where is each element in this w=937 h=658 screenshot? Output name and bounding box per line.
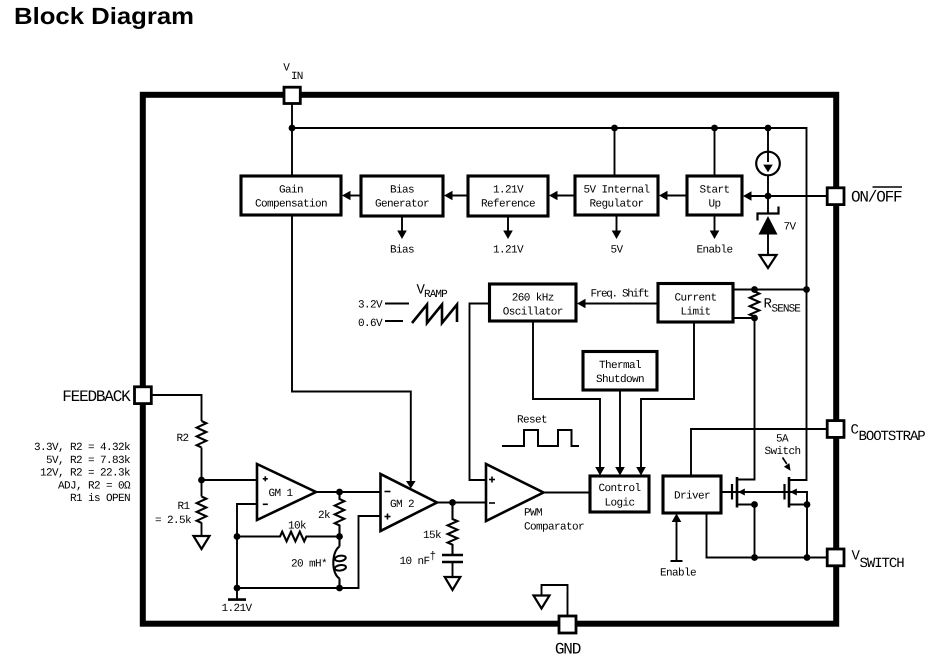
wire GM 2 output to PWM comparator - input bbox=[437, 502, 486, 504]
node junction feedback divider bbox=[198, 477, 205, 484]
block Bias Generator bbox=[361, 176, 443, 216]
node junction Q2/VSWITCH bbox=[804, 554, 811, 561]
node junction bus/current source bbox=[765, 125, 772, 132]
wire Current Limit bottom to Control Logic bbox=[636, 322, 694, 476]
resistor R1 bbox=[155, 497, 206, 528]
transistor Q2 source lead bbox=[789, 504, 807, 506]
svg-text:C: C bbox=[851, 423, 859, 439]
svg-text:SWITCH: SWITCH bbox=[860, 556, 905, 572]
svg-text:1.21V: 1.21V bbox=[221, 603, 252, 615]
wire VIN stub down to Gain Compensation bbox=[291, 103, 293, 176]
svg-text:R1: R1 bbox=[178, 501, 191, 513]
wire Current Limit to Oscillator (freq shift) bbox=[577, 299, 658, 309]
wire 1.21V Reference to Bias Generator bbox=[444, 191, 468, 201]
wire Q2 source down to VSWITCH rail bbox=[806, 505, 808, 558]
svg-text:Logic: Logic bbox=[604, 498, 634, 510]
resistor 2k bbox=[318, 492, 344, 536]
comparator PWM bbox=[486, 464, 584, 534]
pin VIN bbox=[283, 63, 302, 104]
node junction inductor / rail bbox=[336, 585, 343, 592]
ramp voltage labels 3.2V / 0.6V bbox=[358, 300, 409, 331]
block Control Logic bbox=[590, 476, 649, 512]
svg-text:5V Internal: 5V Internal bbox=[583, 185, 649, 197]
note feedback resistor values bbox=[34, 442, 131, 505]
svg-text:Generator: Generator bbox=[375, 199, 429, 211]
block 260 kHz Oscillator bbox=[490, 284, 577, 321]
block Thermal Shutdown bbox=[583, 352, 657, 391]
wire Bias Generator to Gain Compensation bbox=[342, 191, 361, 201]
wire Bias output arrow bbox=[390, 216, 414, 257]
svg-text:ON/OFF: ON/OFF bbox=[851, 189, 902, 207]
svg-text:= 2.5k: = 2.5k bbox=[155, 515, 192, 527]
block 1.21V Reference bbox=[468, 176, 548, 216]
transistor Q1 gate bar bbox=[731, 484, 733, 500]
wire Driver output to FET gates bbox=[721, 492, 807, 505]
svg-text:7V: 7V bbox=[784, 222, 797, 234]
svg-text:Oscillator: Oscillator bbox=[503, 307, 563, 319]
svg-text:GND: GND bbox=[555, 641, 581, 658]
resistor R2 bbox=[177, 421, 207, 447]
wire bus drop to current source bbox=[767, 128, 769, 152]
node junction RSENSE bottom bbox=[751, 315, 758, 322]
svg-text:FEEDBACK: FEEDBACK bbox=[62, 388, 131, 406]
node junction Q2 source bbox=[804, 501, 811, 508]
transistor Q2 drain lead bbox=[789, 479, 807, 481]
svg-text:Comparator: Comparator bbox=[524, 522, 584, 534]
wire FEEDBACK to R2 bbox=[152, 395, 202, 421]
wire Current Limit to RSENSE bottom bbox=[733, 317, 755, 319]
node junction bus/start up bbox=[711, 125, 718, 132]
wire R2 to R1 node bbox=[201, 448, 203, 497]
svg-text:Freq. Shift: Freq. Shift bbox=[591, 289, 650, 301]
op-amp GM 2 bbox=[381, 474, 438, 531]
svg-text:Gain: Gain bbox=[279, 185, 303, 197]
svg-text:Shutdown: Shutdown bbox=[596, 374, 644, 386]
resistor 10k bbox=[237, 521, 340, 542]
wire bus drop to 5V Internal Regulator bbox=[614, 128, 616, 176]
svg-text:BOOTSTRAP: BOOTSTRAP bbox=[859, 429, 926, 445]
svg-text:Control: Control bbox=[598, 483, 640, 495]
svg-text:2k: 2k bbox=[318, 510, 331, 522]
title Block Diagram bbox=[14, 3, 194, 29]
node junction bus corner / RSENSE bbox=[803, 286, 810, 293]
svg-text:Enable: Enable bbox=[660, 568, 696, 580]
svg-text:Start: Start bbox=[699, 185, 729, 197]
wire Enable input to Driver bbox=[660, 514, 696, 580]
sawtooth ramp waveform bbox=[412, 305, 457, 324]
wire 1.21V output arrow bbox=[493, 216, 524, 257]
wire R1 to ground bbox=[201, 523, 203, 536]
transistor Q1 source lead bbox=[737, 504, 755, 506]
resistor RSENSE bbox=[750, 290, 802, 319]
svg-text:Bias: Bias bbox=[390, 185, 414, 197]
transistor Q2 gate bar bbox=[783, 484, 785, 500]
IC boundary box bbox=[143, 95, 836, 624]
resistor 15k bbox=[423, 503, 457, 556]
op-amp GM 1 bbox=[257, 464, 316, 520]
svg-text:SENSE: SENSE bbox=[772, 304, 802, 316]
svg-text:ADJ, R2 = 0Ω: ADJ, R2 = 0Ω bbox=[58, 481, 131, 493]
svg-text:Reference: Reference bbox=[481, 199, 535, 211]
svg-text:1.21V: 1.21V bbox=[493, 245, 524, 257]
transistor Q1 channel bar bbox=[736, 477, 739, 508]
svg-text:10 nF: 10 nF bbox=[399, 556, 429, 568]
svg-text:RAMP: RAMP bbox=[424, 289, 448, 301]
svg-text:Driver: Driver bbox=[674, 491, 710, 503]
svg-text:10k: 10k bbox=[288, 521, 307, 533]
wire Thermal Shutdown to Control Logic bbox=[615, 390, 625, 476]
block Gain Compensation bbox=[241, 176, 341, 215]
node junction GM2 output / 15k bbox=[449, 499, 456, 506]
wire GM 1 - input to 1.21V rail bbox=[237, 504, 257, 588]
pin VSWITCH bbox=[827, 549, 904, 573]
wire 5V Regulator to 1.21V Reference bbox=[549, 191, 575, 201]
node junction VIN bus bbox=[289, 125, 296, 132]
svg-text:R2: R2 bbox=[177, 433, 189, 445]
node junction GM2 out / PWM minus bbox=[452, 502, 454, 504]
svg-text:Reset: Reset bbox=[517, 415, 547, 427]
node junction bus/5V regulator bbox=[611, 125, 618, 132]
svg-text:20 mH*: 20 mH* bbox=[291, 559, 327, 571]
block 5V Internal Regulator bbox=[575, 176, 658, 215]
svg-text:12V, R2 = 22.3k: 12V, R2 = 22.3k bbox=[40, 468, 131, 480]
wire CBOOTSTRAP to Driver top bbox=[691, 429, 827, 476]
svg-text:Bias: Bias bbox=[390, 245, 414, 257]
svg-text:Limit: Limit bbox=[680, 307, 710, 319]
wire Oscillator bottom to Control Logic bbox=[533, 321, 605, 476]
svg-text:0.6V: 0.6V bbox=[358, 318, 383, 330]
svg-text:Enable: Enable bbox=[696, 245, 732, 257]
block Start Up bbox=[687, 176, 742, 215]
svg-text:Thermal: Thermal bbox=[599, 360, 641, 372]
current source I1 bbox=[756, 152, 780, 176]
wire 1.21V rail to GM 2 + input bbox=[237, 516, 381, 588]
svg-text:GM 2: GM 2 bbox=[390, 499, 414, 511]
ground symbol below R1 bbox=[194, 536, 210, 549]
svg-text:Regulator: Regulator bbox=[589, 199, 643, 211]
svg-text:Block Diagram: Block Diagram bbox=[14, 3, 194, 29]
svg-text:3.3V, R2 = 4.32k: 3.3V, R2 = 4.32k bbox=[34, 442, 131, 454]
block Driver bbox=[663, 476, 721, 513]
label Reset bbox=[517, 415, 547, 427]
svg-text:3.2V: 3.2V bbox=[358, 300, 383, 312]
transistor Q1 drain lead bbox=[737, 479, 755, 481]
wire PWM output to Control Logic bbox=[544, 492, 591, 494]
node junction RSENSE top bbox=[751, 286, 758, 293]
node junction 10k/2k/inductor bbox=[336, 533, 343, 540]
wire Start Up to 5V Regulator bbox=[659, 191, 687, 201]
capacitor 10 nF bbox=[399, 551, 463, 576]
wire bus corner down to switch FET Q2 drain bbox=[789, 290, 807, 481]
svg-text:1.21V: 1.21V bbox=[493, 185, 524, 197]
svg-text:5V: 5V bbox=[610, 245, 623, 257]
svg-text:GM 1: GM 1 bbox=[269, 488, 294, 500]
wire RSENSE bottom down to switch FET Q1 drain bbox=[737, 318, 755, 480]
svg-text:Switch: Switch bbox=[764, 446, 800, 458]
svg-text:†: † bbox=[430, 551, 436, 563]
ground symbol internal bbox=[534, 596, 550, 609]
transistor Q1 body arrow bbox=[738, 489, 745, 496]
node VRAMP label bbox=[417, 283, 449, 302]
wire Enable output arrow bbox=[696, 215, 732, 257]
svg-text:15k: 15k bbox=[423, 530, 442, 542]
transistor Q2 channel bar bbox=[788, 477, 791, 508]
net label 1.21V bbox=[221, 588, 252, 615]
wire Oscillator left output down to PWM comparator bbox=[470, 304, 490, 481]
wire ON/OFF pin to Start Up bbox=[743, 191, 827, 201]
node junction Q1 source bbox=[751, 501, 758, 508]
wire 5V output arrow bbox=[610, 215, 623, 257]
ground symbol below zener bbox=[760, 255, 777, 268]
svg-text:260 kHz: 260 kHz bbox=[512, 293, 554, 305]
node junction GM1 minus wire / 10k bbox=[234, 533, 241, 540]
wire Current Limit to RSENSE top bbox=[733, 289, 807, 291]
wire Q1 source down to VSWITCH rail bbox=[754, 505, 756, 558]
block Current Limit bbox=[658, 284, 733, 323]
zener diode 7V bbox=[758, 207, 797, 255]
wire top supply bus bbox=[292, 128, 807, 290]
pin FEEDBACK bbox=[62, 387, 151, 406]
pin GND bbox=[555, 616, 581, 658]
node junction GM1 minus rail bbox=[234, 585, 241, 592]
svg-text:5V, R2 = 7.83k: 5V, R2 = 7.83k bbox=[46, 455, 131, 467]
wire GM 1 output to GM 2 - input bbox=[316, 491, 381, 493]
wire current source to ON/OFF node bbox=[767, 175, 769, 213]
node junction Q1/VSWITCH bbox=[751, 554, 758, 561]
reset pulse waveform bbox=[502, 430, 579, 446]
wire GND pin to internal ground bbox=[542, 585, 568, 616]
ground symbol below 10 nF bbox=[445, 577, 461, 590]
node junction ON/OFF wire and zener branch bbox=[765, 193, 772, 200]
svg-text:IN: IN bbox=[291, 71, 303, 83]
pin CBOOTSTRAP bbox=[827, 421, 925, 445]
wire divider node to GM 1 + input bbox=[202, 479, 258, 481]
svg-text:PWM: PWM bbox=[524, 508, 542, 520]
wire Gain Compensation to GM 2 input arrow bbox=[292, 215, 416, 489]
svg-text:Current: Current bbox=[674, 293, 716, 305]
svg-text:R1 is OPEN: R1 is OPEN bbox=[70, 493, 130, 505]
wire VSWITCH rail bbox=[707, 513, 828, 558]
label Freq. Shift bbox=[591, 289, 650, 301]
label 5A Switch with pointer bbox=[764, 434, 800, 471]
inductor 20 mH bbox=[291, 537, 346, 589]
svg-text:Compensation: Compensation bbox=[255, 199, 327, 211]
node junction GM1 output / 2k bbox=[336, 489, 343, 496]
svg-text:Up: Up bbox=[708, 199, 720, 211]
svg-text:5A: 5A bbox=[776, 434, 789, 446]
pin ON/OFF bbox=[827, 187, 902, 207]
wire bus drop to Start Up bbox=[714, 128, 716, 176]
transistor Q2 body arrow bbox=[790, 489, 797, 496]
